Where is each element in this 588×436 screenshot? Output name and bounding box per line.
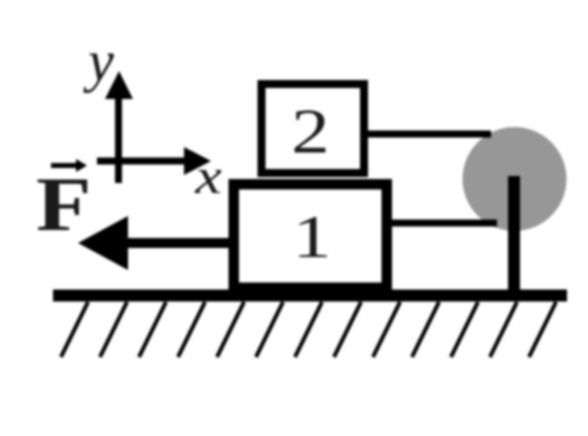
svg-text:F: F	[36, 162, 91, 247]
svg-text:1: 1	[292, 204, 331, 270]
svg-text:y: y	[83, 29, 114, 94]
svg-text:2: 2	[291, 96, 329, 167]
svg-text:x: x	[194, 149, 222, 204]
